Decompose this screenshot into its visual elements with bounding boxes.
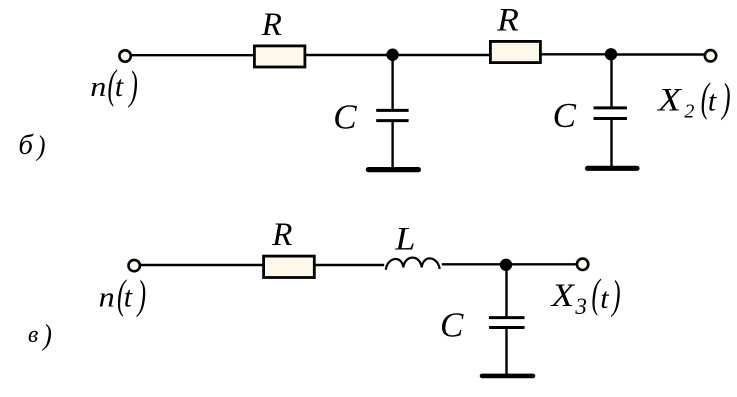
svg-text:2: 2 [684,100,694,122]
resistor R1 [254,46,305,67]
node N3 junction [500,259,512,271]
wire: R1 to R2 through node N1 [305,54,491,56]
label X3(t) output [549,272,620,319]
svg-text:t: t [115,70,124,103]
label б) circuit designator [18,129,45,162]
svg-text:X: X [549,277,575,314]
resistor R3 [264,256,315,277]
wire: input lead to resistor R1 [130,54,256,56]
svg-text:R: R [496,2,519,39]
label n(t) input, circuit б [90,63,138,108]
wire: capacitor C3 to ground [505,329,507,374]
svg-text:R: R [261,7,282,43]
svg-text:): ) [41,319,52,352]
wire: capacitor C2 to ground [610,120,612,167]
wire: inductor to node N3 [442,263,506,265]
svg-text:): ) [136,274,146,318]
wire: node N2 to output terminal [611,53,705,55]
svg-text:n: n [99,281,115,313]
svg-text:): ) [721,77,731,121]
wire: node N3 down to capacitor C3 [505,265,507,316]
wire: node N3 to output terminal [506,263,577,265]
svg-text:C: C [553,96,577,135]
wire: node N1 down to capacitor C1 [391,55,393,109]
resistor R2 [490,41,540,62]
capacitor C3 [489,318,525,328]
capacitor C1 [376,110,408,120]
terminal: output X3(t) [577,259,588,270]
node N1 junction [386,49,398,61]
ground G1 [368,167,418,172]
terminal: input n(t) [119,50,130,61]
label X2(t) output [656,76,731,122]
wire: R2 to node N2 [540,53,611,55]
svg-text:C: C [333,98,357,137]
svg-text:R: R [271,217,292,253]
wire: R3 to inductor L [314,264,384,266]
terminal: output X2(t) [705,50,716,61]
label в) circuit designator [28,319,52,352]
inductor L coil [386,258,440,270]
node N2 junction [605,48,617,60]
wire: capacitor C1 to ground [391,122,393,168]
svg-text:C: C [440,306,464,345]
svg-text:n: n [90,71,106,103]
svg-text:t: t [124,281,133,314]
svg-text:): ) [35,130,45,162]
capacitor C2 [594,108,628,119]
wire: node N2 down to capacitor C2 [610,54,612,106]
svg-text:3: 3 [574,294,587,319]
label n(t) input, circuit в [99,273,146,318]
svg-text:t: t [708,84,717,117]
svg-text:X: X [656,82,682,119]
ground G2 [588,166,638,171]
terminal: input n(t), circuit в [129,260,140,271]
svg-text:б: б [18,129,34,161]
svg-text:t: t [600,282,609,315]
svg-text:): ) [128,64,138,108]
svg-text:в: в [28,322,38,348]
svg-text:L: L [394,220,415,257]
wire: input lead to resistor R3 [139,264,265,266]
svg-text:): ) [611,274,621,318]
ground G3 [482,374,533,379]
